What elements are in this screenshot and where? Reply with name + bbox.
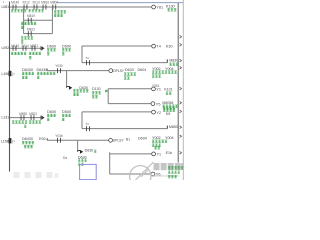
rung 4 top comment (green) <box>163 107 165 110</box>
parallel branch wire 1 <box>24 19 53 21</box>
D633 comment (green) line 2 <box>124 77 126 80</box>
svg-text:B1: B1 <box>126 137 130 141</box>
svg-text:D630: D630 <box>85 148 94 152</box>
branch pointer arrow rung 5 <box>78 151 83 153</box>
rung 4 bottom branch wire <box>82 128 167 130</box>
rung 2 bottom branch wire <box>82 62 167 64</box>
svg-text:D6430: D6430 <box>37 68 48 72</box>
svg-text:Y002: Y002 <box>152 136 161 140</box>
contact T4 rung 4 bottom <box>87 126 90 131</box>
box A bottom wire <box>108 103 151 105</box>
svg-text:R30: R30 <box>39 137 46 141</box>
M830 comment (green) <box>169 63 171 66</box>
green comment over watermark line 2 <box>168 171 170 174</box>
rung 1 wire <box>10 6 151 8</box>
D600 comment (green) line 1 <box>47 49 49 52</box>
watermark faint text bottom-left <box>14 172 20 178</box>
svg-text:Y030: Y030 <box>55 64 63 68</box>
right power rail <box>177 3 179 163</box>
contact X140 on rung 1 <box>13 5 16 10</box>
svg-text:M140: M140 <box>11 1 19 5</box>
contact X014 rung 2 <box>23 46 26 51</box>
box B wire 3 <box>110 173 150 175</box>
rung 4 top branch wire <box>82 111 151 113</box>
Y002 comment (green) line 2 <box>152 75 154 78</box>
blue box comment (green) line 2 <box>78 163 80 166</box>
svg-text:K101: K101 <box>164 87 172 91</box>
svg-text:L081: L081 <box>1 5 9 9</box>
svg-text:M822: M822 <box>27 28 35 32</box>
rung4 D600 comment (green) line 1 <box>47 114 49 117</box>
pointer comment (green) line 2 <box>73 93 75 96</box>
D6430 comment (green) line 2 <box>37 76 39 79</box>
svg-text:M850: M850 <box>169 125 178 129</box>
svg-text:T4: T4 <box>85 122 89 126</box>
rung 2 branch vertical <box>81 46 83 63</box>
svg-text:M821: M821 <box>29 112 37 116</box>
continuation marks <box>180 35 182 38</box>
svg-text:T4: T4 <box>156 45 160 49</box>
rung4 D600 comment (green) line 2 <box>47 118 49 121</box>
watermark logo circle <box>130 166 151 187</box>
green comment over watermark line 3 <box>168 175 170 178</box>
svg-text:DPLSY: DPLSY <box>113 69 125 73</box>
left green mark near box B <box>94 150 96 153</box>
contact M821 rung 2 <box>32 46 35 51</box>
parallel branch wire 2 <box>24 33 53 35</box>
svg-text:M821: M821 <box>30 44 38 48</box>
rung5 Y002 comment (green) line 2 <box>152 144 154 147</box>
contact M140 rung 2 <box>13 46 16 51</box>
watermark logo swoosh <box>130 162 154 186</box>
box A top wire <box>108 88 151 90</box>
D6430 comment (green) line 1 <box>37 72 39 75</box>
coil C1E on rung 4 top <box>152 110 156 114</box>
D500 comment (green) line 1 <box>62 49 64 52</box>
rung 5 wire <box>47 139 108 141</box>
rung 4 comment row (green) <box>12 121 14 124</box>
svg-text:K5: K5 <box>166 112 171 116</box>
svg-text:M8058: M8058 <box>162 101 173 105</box>
box A left comment (green) line 2 <box>92 96 94 99</box>
contact M800 comment (green) line 2 <box>54 14 56 17</box>
svg-text:X012: X012 <box>22 1 30 5</box>
watermark big gray characters <box>154 163 160 170</box>
M8058 comment (green) line 2 <box>163 109 165 112</box>
rising edge mark rung 2 <box>41 46 44 50</box>
rung5 compare comment (green) line 1 <box>22 141 24 144</box>
rung 4 comment row 2 (green) <box>24 125 26 128</box>
parallel contact M822 <box>28 31 31 36</box>
svg-text:D500: D500 <box>62 110 71 114</box>
rung 5 branch vertical <box>77 140 79 150</box>
rung 1 right comment (green) <box>168 9 170 12</box>
box A left comment (green) line 1 <box>92 92 94 95</box>
rung 4 branch vertical <box>81 112 83 129</box>
box A branch vertical <box>107 89 109 104</box>
blue box comment (green) line 1 <box>78 159 80 162</box>
branch 2 comment (green) line 1 <box>21 37 23 40</box>
svg-text:DPLSY: DPLSY <box>113 139 125 143</box>
svg-text:L158: L158 <box>1 139 9 143</box>
box B wire 1 <box>110 153 152 155</box>
contact T4 on bottom branch <box>87 60 90 65</box>
D8430 comment (green) line 2 <box>22 76 24 79</box>
branch 2 comment (green) line 2 <box>21 41 23 44</box>
svg-text:M819: M819 <box>27 14 35 18</box>
branch right vertical to rung 1 <box>51 7 53 34</box>
pointer comment (green) line 1 <box>73 90 75 93</box>
set bracket tick rung 4 <box>166 126 168 129</box>
contact X013 on rung 1 <box>34 5 37 10</box>
svg-text:D8430: D8430 <box>22 68 33 72</box>
contact M830 rung 4 <box>21 115 24 120</box>
rung 3 branch vertical <box>66 71 68 87</box>
svg-text:M800: M800 <box>50 1 58 5</box>
blue selection box <box>80 164 97 179</box>
rung 5 pulse coil <box>109 138 113 142</box>
coil Y5 on box A bottom <box>151 102 155 106</box>
svg-text:L092: L092 <box>1 46 9 50</box>
coil Y11 on box B wire 1 <box>152 152 156 156</box>
svg-text:Y1: Y1 <box>156 88 161 92</box>
svg-text:E1b: E1b <box>166 151 172 155</box>
svg-text:X013: X013 <box>32 1 40 5</box>
contact M810 on rung 1 <box>43 5 46 10</box>
svg-text:Y5: Y5 <box>156 102 161 106</box>
rung4 D500 comment (green) line 2 <box>62 118 64 121</box>
D8430 comment (green) line 1 <box>22 72 24 75</box>
svg-text:L131: L131 <box>1 115 9 119</box>
coil Y6 on box B wire 3 <box>151 172 155 176</box>
green comment over watermark line 1 <box>168 167 170 170</box>
svg-text:D8430: D8430 <box>22 137 33 141</box>
rung 2 comment row (green) <box>11 52 13 55</box>
contact M821 rung 4 <box>31 115 34 120</box>
svg-text:Y004: Y004 <box>165 136 174 140</box>
svg-text:D633: D633 <box>125 68 134 72</box>
D633 comment (green) line 1 <box>124 73 126 76</box>
Y004 comment (green) <box>168 71 170 74</box>
rung 3 wire <box>47 70 109 72</box>
rung 2 wire <box>10 47 41 49</box>
M8058 comment (green) line 1 <box>163 105 165 108</box>
Y002 comment (green) line 1 <box>152 71 154 74</box>
svg-text:[>: [> <box>12 72 15 76</box>
svg-text:X014: X014 <box>21 44 29 48</box>
branch pointer arrow <box>67 87 72 89</box>
svg-text:K130: K130 <box>166 5 175 9</box>
rung4 D500 comment (green) line 1 <box>62 114 64 117</box>
coil Y1 on box A top <box>152 87 156 91</box>
contact M800 comment (green) line 1 <box>54 11 56 14</box>
svg-text:M830: M830 <box>19 112 27 116</box>
svg-text:M830: M830 <box>169 59 178 63</box>
compare bracket close <box>46 69 48 71</box>
contact Y030 rung 5 <box>58 138 61 143</box>
svg-text:D600: D600 <box>47 110 56 114</box>
rung 1 output coil Y081 <box>152 5 156 9</box>
rung 2 comment row 2 (green) <box>29 56 31 59</box>
contact X012 on rung 1 <box>24 5 27 10</box>
D500 comment (green) line 2 <box>62 53 64 56</box>
svg-text:D600: D600 <box>47 44 56 48</box>
branch 1 comment (green) line 1 <box>21 22 23 25</box>
svg-text:Y2: Y2 <box>156 111 161 115</box>
svg-text:[>: [> <box>12 139 15 143</box>
edit cursor on rail rung 5 <box>9 138 12 143</box>
svg-text:T4: T4 <box>85 56 89 60</box>
svg-text:Y81: Y81 <box>156 6 163 10</box>
left power rail <box>9 2 11 172</box>
svg-text:K30: K30 <box>166 44 173 48</box>
set bracket tick <box>166 59 168 62</box>
svg-text:D500: D500 <box>62 44 71 48</box>
rung5 Y002 comment (green) line 1 <box>152 140 154 143</box>
svg-text:D130: D130 <box>92 87 101 91</box>
svg-text:Y1: Y1 <box>157 153 162 157</box>
svg-text:M810: M810 <box>41 1 49 5</box>
svg-text:Da: Da <box>63 156 67 160</box>
rung5 compare comment (green) line 2 <box>24 145 26 148</box>
D600 comment (green) line 2 <box>47 53 49 56</box>
contact M800 on rung 1 <box>53 5 56 10</box>
K1b comment (green) <box>166 92 168 95</box>
rung 4 wire <box>10 117 41 119</box>
box A corner tick (green) <box>105 90 107 92</box>
green tick above box B coil <box>154 147 156 150</box>
edit cursor on rail <box>9 71 12 76</box>
rung 3 left comment (green) <box>47 72 49 75</box>
contact Y030 rung 3 <box>58 68 61 73</box>
svg-text:M140: M140 <box>11 44 19 48</box>
svg-text:Y03b: Y03b <box>55 134 63 138</box>
top pane border (blue) <box>57 2 183 4</box>
timer coil T4 <box>152 44 156 48</box>
branch left vertical from rung 1 <box>23 7 25 34</box>
rising edge mark rung 4 <box>41 116 44 120</box>
compare bracket close rung 5 <box>46 138 48 140</box>
rung 1 comment row (green) <box>11 10 13 13</box>
branch 1 comment (green) line 2 <box>21 26 23 29</box>
window right edge <box>182 0 184 180</box>
svg-text:L106: L106 <box>1 72 9 76</box>
rung 2 top branch wire <box>82 45 151 47</box>
parallel contact M819 <box>28 18 31 23</box>
box B branch vertical <box>109 152 111 174</box>
svg-text:D604: D604 <box>138 68 147 72</box>
rung 3 pulse coil <box>109 69 113 73</box>
svg-text:D604: D604 <box>138 136 147 140</box>
